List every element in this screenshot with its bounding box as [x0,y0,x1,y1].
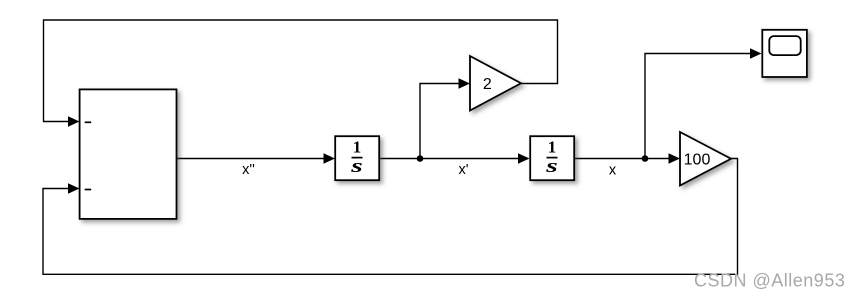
sum block (Add) [80,89,177,219]
svg-text:x'': x'' [242,162,255,178]
integrator block 1 (1/s) [335,136,379,180]
arrowhead into Gain2 [459,78,471,89]
arrowhead into Gain100 [669,153,681,164]
arrowhead into Sum input 2 [68,183,80,194]
node junction on x' wire [417,155,424,162]
wire branch from x junction up to Scope input [645,54,754,159]
minus sign port 1 of sum block [85,121,92,123]
arrowhead into Scope [750,48,762,59]
gain block 100 (triangle) [680,132,731,186]
svg-text:CSDN @Allen953: CSDN @Allen953 [694,271,845,291]
wire feedback from Gain100 output: right, down, left across bottom, up, into Sum input 2 [43,159,738,275]
wire feedback from Gain2 output: right, up, left across top, down, into Sum input 1 [44,20,558,122]
node junction on x wire [642,155,649,162]
arrowhead into Integrator1 [324,153,336,164]
svg-text:1: 1 [548,138,557,157]
arrowhead into Integrator2 [518,153,530,164]
minus sign port 2 of sum block [85,189,92,191]
arrowhead into Sum input 1 [68,116,80,127]
wire Integrator2 output to Gain100 (signal x) [575,158,673,160]
svg-text:x: x [609,163,617,179]
wire branch from x' junction up to Gain2 input [420,84,462,159]
wire Sum output to Integrator1 (signal x'') [177,158,327,160]
gain block 2 (triangle) [470,56,521,111]
svg-text:2: 2 [483,76,492,93]
integrator block 2 (1/s) [530,136,574,180]
svg-text:x': x' [458,162,468,178]
svg-text:s: s [545,157,558,177]
wire Integrator1 output to Integrator2 (signal x') [380,158,523,160]
svg-text:s: s [350,157,363,177]
scope block [762,30,807,77]
svg-text:100: 100 [684,152,711,169]
svg-text:1: 1 [353,138,362,157]
